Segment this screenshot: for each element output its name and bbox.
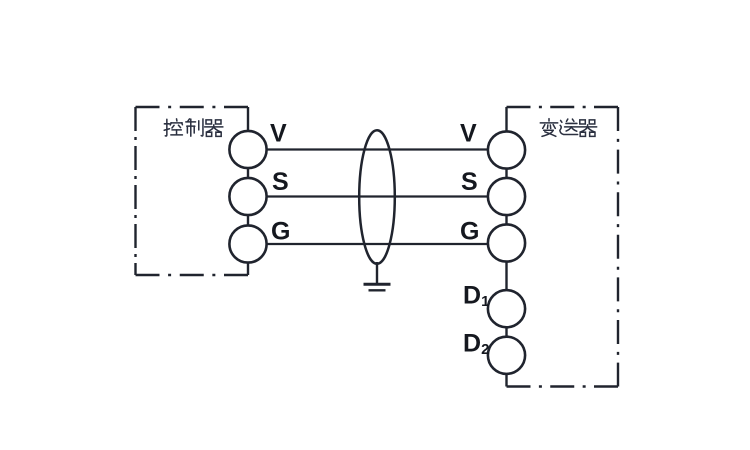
wire stub right box corner to terminal V right bbox=[505, 107, 507, 150]
terminal circle G right bbox=[488, 224, 525, 261]
svg-text:S: S bbox=[461, 168, 478, 196]
wire stub terminal D2 right to right box bottom corner bbox=[505, 355, 507, 387]
wire bottom edge left box bbox=[136, 274, 249, 276]
terminal circle D2 right bbox=[488, 337, 525, 374]
wire V (left to right) bbox=[248, 148, 507, 150]
terminal circle S right bbox=[488, 178, 525, 215]
terminal circle D1 right bbox=[488, 290, 525, 327]
label 变送器 bbox=[540, 119, 596, 137]
terminal circle G left bbox=[229, 225, 266, 262]
wire G (left to right) bbox=[248, 243, 507, 245]
svg-text:S: S bbox=[272, 168, 289, 196]
svg-text:V: V bbox=[460, 120, 477, 148]
ground bar 2 bbox=[369, 289, 386, 291]
svg-text:D1: D1 bbox=[463, 282, 489, 311]
ground bar 1 bbox=[364, 283, 391, 286]
cable shield ellipse bbox=[359, 130, 395, 264]
terminal circle V right bbox=[488, 131, 525, 168]
terminal circle S left bbox=[229, 178, 266, 215]
box 控制器 (controller) dashed frame bbox=[136, 107, 249, 275]
wire left edge left box bbox=[134, 107, 136, 275]
svg-text:G: G bbox=[271, 218, 290, 246]
svg-text:V: V bbox=[270, 120, 287, 148]
box 变送器 (transmitter) dashed frame bbox=[507, 107, 619, 387]
wire top edge left box bbox=[136, 106, 249, 108]
wire stub terminal chain left V-S-G bbox=[247, 150, 249, 244]
svg-text:D2: D2 bbox=[463, 330, 489, 359]
terminal circle V left bbox=[229, 131, 266, 168]
svg-text:G: G bbox=[460, 218, 479, 246]
wire bottom edge right box bbox=[507, 385, 619, 387]
wire stub terminal chain right V-S-G-D1-D2 bbox=[505, 150, 507, 355]
wire stub left box corner to terminal V left bbox=[247, 107, 249, 149]
wire top edge right box bbox=[507, 106, 619, 108]
label 控制器 bbox=[164, 119, 223, 136]
wire ground stem from shield bbox=[376, 262, 378, 284]
wire S (left to right) bbox=[248, 195, 507, 197]
wire right edge right box bbox=[617, 107, 619, 387]
wire stub terminal G left to left box bottom corner bbox=[247, 244, 249, 275]
